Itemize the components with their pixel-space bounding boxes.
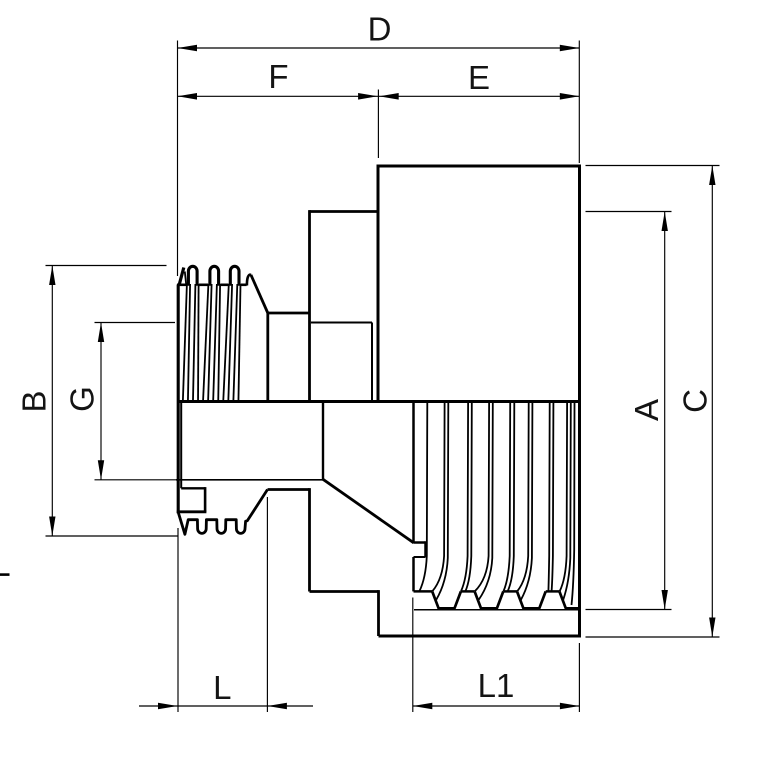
thread chamfer slant (251, 275, 268, 313)
bottom middle ledge y=591.5 (310, 590, 379, 593)
thread crest 3 (230, 266, 239, 286)
bottom middle right wall x=378.5 (377, 590, 380, 636)
bore step right wall (371, 323, 373, 401)
L right extension line (266, 497, 268, 712)
external thread left edge (177, 285, 180, 514)
extension line left of D/F (x=177.5) (177, 41, 179, 277)
dimension E line (378, 95, 579, 97)
label D (368, 11, 392, 48)
dimension E arrowheads (379, 93, 579, 100)
svg-text:A: A (628, 399, 665, 421)
big head box left edge (377, 165, 380, 402)
internal thread left wall (412, 403, 415, 543)
svg-text:D: D (368, 11, 392, 48)
svg-text:C: C (677, 389, 714, 413)
external thread flank lines (183, 284, 241, 400)
B bottom extension line (46, 535, 178, 537)
neck top edge y=313 (268, 312, 310, 315)
pocket top edge (181, 487, 205, 489)
dimension L1 line (413, 705, 580, 707)
svg-text:L: L (213, 669, 231, 706)
dimension C line (711, 166, 713, 638)
lower-left inner wall line (180, 403, 182, 488)
dimension C arrowheads (709, 166, 715, 638)
internal thread tooth 1 (432, 591, 461, 608)
dimension D line (178, 47, 580, 49)
bore step top line (G) (311, 322, 372, 324)
relief tab top (414, 541, 426, 544)
dimension F arrowheads (178, 93, 378, 100)
collar left edge x=309.5 (308, 210, 311, 401)
stray tick at left page edge (0, 573, 10, 576)
internal thread tooth 4 (559, 591, 578, 608)
pocket right edge (204, 487, 207, 512)
extension line middle F/E (x=378.4) (377, 90, 379, 159)
bore lower wall x=323 (322, 403, 324, 481)
big head box top edge (378, 165, 580, 168)
L1 left extension line (412, 598, 414, 713)
shelf edge y=489.5 (268, 488, 310, 491)
svg-text:F: F (268, 58, 288, 95)
dimension A arrowheads (662, 212, 668, 610)
label G (64, 386, 101, 412)
left edge top chamfer (179, 268, 186, 286)
internal thread tooth 2 (475, 591, 504, 608)
thread crest 1 (188, 266, 197, 286)
extension line right of D/E (x=579.3) (578, 41, 580, 164)
relief tab bottom (414, 556, 426, 558)
internal thread crest line segments (414, 590, 560, 593)
centre mid line (177, 400, 580, 403)
relief tab right (424, 541, 427, 557)
label E (468, 59, 490, 96)
label C (677, 389, 714, 413)
internal thread tooth 3 (517, 591, 546, 608)
right edge of body (578, 165, 581, 637)
L left extension line (177, 528, 179, 712)
internal thread root line (414, 609, 581, 611)
bottom middle left wall x=309.5 (308, 488, 311, 591)
C top extension line (586, 165, 720, 167)
B top extension line (46, 265, 167, 267)
neck left edge x=267.8 (266, 312, 269, 402)
bottom edge of body (379, 635, 582, 638)
label F (268, 58, 288, 95)
dimension D arrowheads (178, 45, 580, 52)
svg-text:L1: L1 (478, 667, 515, 704)
A top extension line (586, 211, 672, 213)
funnel slant (323, 479, 414, 543)
serrated grip profile (178, 490, 267, 535)
bore bottom line (G) through part (176, 479, 323, 481)
dimension G arrowheads (98, 323, 104, 480)
dimension B line (51, 266, 53, 537)
dimension L line with outside arrows (139, 705, 313, 707)
dimension A line (664, 212, 666, 610)
svg-text:E: E (468, 59, 490, 96)
dimension L arrowheads (outside) (158, 703, 287, 709)
G top extension line (95, 322, 176, 324)
label L (213, 669, 231, 706)
label A (628, 399, 665, 421)
dimension G line (100, 323, 102, 480)
label L1 (478, 667, 515, 704)
thread crest 2 (210, 266, 219, 286)
label B (16, 390, 53, 412)
external thread root line (177, 283, 247, 286)
thread crest 4 partial (247, 275, 251, 286)
svg-text:G: G (64, 386, 101, 412)
internal thread flank lines (420, 403, 575, 605)
dimension L1 arrowheads (413, 703, 580, 709)
L1 right extension line (578, 643, 580, 712)
internal thread left wall lower (412, 557, 415, 591)
G bottom extension line (95, 479, 177, 481)
pocket bottom edge (177, 510, 207, 513)
collar top edge y=211.5 (310, 210, 379, 213)
A bottom extension line (586, 609, 672, 611)
C bottom extension line (586, 636, 720, 638)
dimension B arrowheads (49, 266, 55, 537)
dimension F line (178, 95, 379, 97)
svg-text:B: B (16, 390, 53, 412)
